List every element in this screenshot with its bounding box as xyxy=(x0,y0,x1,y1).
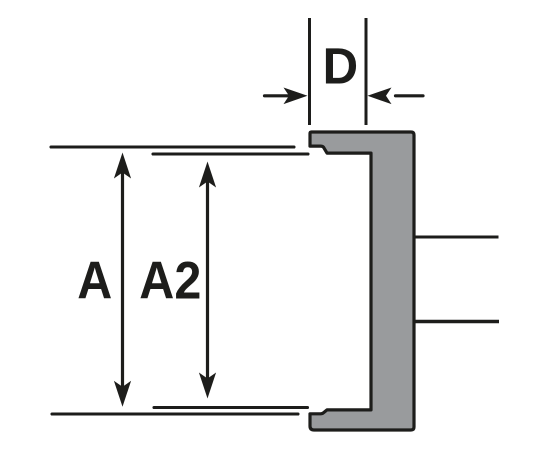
D extension line left xyxy=(308,18,311,125)
part body (gray cap cross-section) xyxy=(310,132,414,430)
D dimension arrow left (points right) xyxy=(265,88,308,105)
svg-text:A2: A2 xyxy=(139,252,201,311)
wire: right lower stub line xyxy=(416,320,500,323)
wire: bottom inner reference line (A2) xyxy=(154,406,308,409)
svg-text:A: A xyxy=(77,252,112,311)
wire: right upper stub line xyxy=(416,236,499,239)
wire: top inner reference line (A2) xyxy=(153,152,308,155)
A dimension arrow (vertical double-headed) xyxy=(114,153,131,407)
A2 dimension arrow (vertical double-headed) xyxy=(199,162,216,399)
D extension line right xyxy=(365,18,368,125)
wire: bottom-left outer reference line (A) xyxy=(52,412,298,415)
svg-text:D: D xyxy=(323,38,359,95)
wire: top-left outer reference line (A) xyxy=(51,145,294,148)
D dimension arrow right (points left) xyxy=(368,88,424,105)
